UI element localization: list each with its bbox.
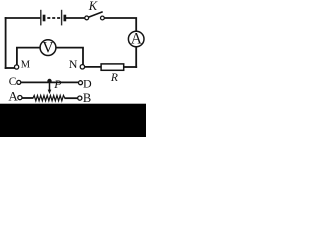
ammeter U: circle xyxy=(128,31,144,47)
terminal D circle xyxy=(79,81,83,85)
wire: bottom stub to node M xyxy=(6,67,15,69)
svg-text:A: A xyxy=(131,31,143,48)
wire: top left horizontal to battery xyxy=(6,17,40,19)
black film strip bottom xyxy=(0,104,146,137)
voltmeter U: circle xyxy=(40,40,56,56)
wire: voltmeter branch right (V to N drop) xyxy=(56,48,83,65)
wire: battery to switch xyxy=(66,17,85,19)
node M circle xyxy=(15,65,19,69)
battery cell 1 long plate xyxy=(40,10,42,26)
terminal C circle xyxy=(17,80,21,84)
switch terminal circle left xyxy=(85,16,89,20)
battery cell 2 short thick plate xyxy=(64,15,67,22)
wire: ammeter bottom down to resistor level xyxy=(135,47,137,67)
battery cell 2 long plate xyxy=(61,10,63,26)
resistor R box xyxy=(101,64,124,70)
switch terminal circle right xyxy=(101,16,105,20)
wire: switch to top right corner and down to ammeter xyxy=(104,18,136,31)
node N circle xyxy=(80,65,84,69)
wire: resistor R right side to vertical xyxy=(125,66,137,68)
terminal B circle xyxy=(78,96,82,100)
svg-text:A: A xyxy=(8,89,18,104)
wire: voltmeter branch left (M up and right to V) xyxy=(17,48,40,65)
svg-text:K: K xyxy=(88,0,98,13)
svg-text:C: C xyxy=(9,76,17,88)
svg-text:V: V xyxy=(42,40,54,57)
svg-text:B: B xyxy=(83,91,91,105)
wiper arrowhead xyxy=(48,90,52,94)
wiper junction dot P xyxy=(47,79,51,83)
svg-text:R: R xyxy=(110,72,118,84)
wire C to D xyxy=(21,81,79,83)
svg-text:N: N xyxy=(69,57,78,71)
wire zigzag to B xyxy=(64,97,77,99)
battery cell 1 short thick plate xyxy=(43,15,46,22)
battery dotted link xyxy=(47,17,61,19)
wire: node N to resistor R left side xyxy=(85,66,101,68)
wiper arrow shaft xyxy=(49,82,51,90)
terminal A circle xyxy=(18,96,22,100)
svg-text:P: P xyxy=(53,77,61,91)
switch blade xyxy=(89,12,103,17)
rheostat zigzag resistance wire xyxy=(33,95,65,100)
wire: left vertical side xyxy=(5,18,7,68)
svg-text:M: M xyxy=(21,59,31,70)
wire A to zigzag xyxy=(22,97,33,99)
svg-text:D: D xyxy=(83,77,92,91)
